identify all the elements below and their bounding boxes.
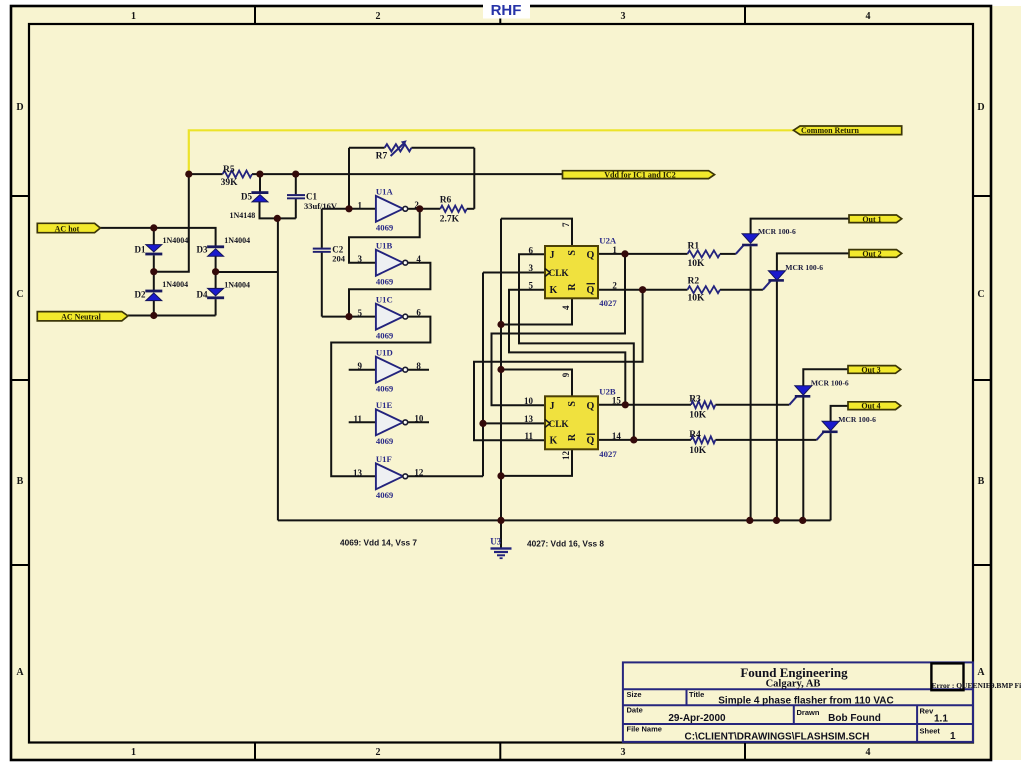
wire R1 to SCR1 gate <box>720 253 736 255</box>
resistor R6 <box>440 206 467 212</box>
wire R3 to SCR3 gate <box>715 404 789 406</box>
svg-text:Simple 4 phase flasher from 11: Simple 4 phase flasher from 110 VAC <box>718 695 893 706</box>
wire SCR4 cathode <box>830 433 832 520</box>
sheet name RHF <box>483 0 530 19</box>
resistor R3 <box>691 401 715 408</box>
inverter U1E <box>353 400 423 446</box>
svg-text:4: 4 <box>561 305 571 310</box>
wire R6 leads <box>467 208 475 210</box>
wire SCR1 cathode <box>750 246 752 520</box>
svg-text:Vdd for IC1 and IC2: Vdd for IC1 and IC2 <box>604 170 675 179</box>
svg-text:CLK: CLK <box>549 420 570 430</box>
port label Out 2 <box>849 249 902 258</box>
svg-text:U1B: U1B <box>376 241 393 251</box>
wire U2B J line from U2A Q <box>492 254 626 405</box>
svg-text:10: 10 <box>524 396 534 406</box>
wire U2B Qbar pin14 to R4 <box>598 439 691 441</box>
field captions <box>627 690 941 736</box>
svg-text:1: 1 <box>358 200 363 210</box>
svg-text:K: K <box>550 435 558 446</box>
wire U1E input stub <box>349 421 376 423</box>
thyristor SCR4 MCR 100-6 <box>822 415 876 433</box>
svg-text:1: 1 <box>612 245 617 255</box>
wire U1B out to U1C in <box>349 263 430 317</box>
field values <box>668 695 956 742</box>
svg-text:12: 12 <box>561 451 571 461</box>
diode D1 1N4004 <box>135 236 189 255</box>
wire U1C out to U1F in <box>331 317 430 477</box>
ground U3 <box>490 537 511 560</box>
svg-text:R5: R5 <box>223 165 235 175</box>
wire clock riser <box>482 273 484 477</box>
svg-text:R6: R6 <box>440 195 452 205</box>
svg-text:Q: Q <box>587 435 595 446</box>
svg-text:J: J <box>550 250 555 261</box>
svg-text:Q: Q <box>587 401 595 412</box>
svg-text:1N4004: 1N4004 <box>162 280 188 289</box>
wire set-reset ground chain <box>500 219 502 521</box>
svg-text:R7: R7 <box>376 152 388 162</box>
svg-text:3: 3 <box>621 747 626 758</box>
svg-text:D2: D2 <box>135 289 146 299</box>
thyristor SCR2 MCR 100-6 <box>768 263 823 282</box>
wire U1F output to clock riser <box>408 475 484 477</box>
svg-text:4069: 4069 <box>376 436 394 446</box>
svg-text:4: 4 <box>866 11 871 22</box>
svg-text:1N4004: 1N4004 <box>163 236 189 245</box>
svg-text:1: 1 <box>131 747 136 758</box>
svg-text:4027: 4027 <box>599 298 617 308</box>
svg-text:2: 2 <box>376 11 381 22</box>
inverter U1B <box>358 241 422 287</box>
svg-text:4027: Vdd 16, Vss 8: 4027: Vdd 16, Vss 8 <box>527 539 604 549</box>
wire U2B CLK line <box>483 422 545 424</box>
capacitor C2 <box>313 245 346 264</box>
svg-text:10K: 10K <box>689 446 707 456</box>
svg-text:U1F: U1F <box>376 454 392 464</box>
wire D1 bottom lead <box>153 255 155 271</box>
svg-text:10: 10 <box>414 413 424 423</box>
diode D2 1N4004 <box>135 280 189 301</box>
svg-text:D3: D3 <box>197 245 208 255</box>
svg-text:RHF: RHF <box>491 2 522 19</box>
svg-text:Date: Date <box>627 706 643 715</box>
svg-text:204: 204 <box>332 253 346 263</box>
svg-text:J: J <box>550 401 555 412</box>
diode D5 1N4148 <box>230 191 269 220</box>
svg-text:Sheet: Sheet <box>920 727 941 736</box>
wire U2A R pin4 <box>501 298 572 324</box>
wire C1 leads <box>295 174 297 194</box>
svg-text:Bob Found: Bob Found <box>828 713 881 724</box>
wire U2A Q pin1 to R1 <box>598 253 688 255</box>
svg-text:1N4004: 1N4004 <box>224 280 250 289</box>
svg-text:3: 3 <box>621 11 626 22</box>
svg-text:14: 14 <box>612 431 622 441</box>
svg-text:2: 2 <box>612 280 617 290</box>
wire ground stem <box>500 520 502 548</box>
svg-text:C: C <box>977 289 984 300</box>
wire D4 leads <box>215 272 217 289</box>
title block <box>623 662 1021 742</box>
svg-text:A: A <box>977 667 985 678</box>
wire ground bottom rail <box>278 519 831 521</box>
svg-text:1.1: 1.1 <box>934 713 948 724</box>
junction node dots <box>150 171 806 525</box>
svg-text:2: 2 <box>376 747 381 758</box>
inverter U1F <box>353 454 424 500</box>
resistor R2 <box>688 286 721 293</box>
svg-text:Out 4: Out 4 <box>861 402 880 411</box>
svg-text:11: 11 <box>524 431 533 441</box>
svg-text:A: A <box>16 667 24 678</box>
svg-text:5: 5 <box>358 308 363 318</box>
port label Out 1 <box>849 215 902 224</box>
svg-text:R: R <box>567 433 578 441</box>
svg-text:1N4004: 1N4004 <box>224 236 250 245</box>
svg-text:R: R <box>567 283 578 291</box>
wire ground riser <box>277 218 279 520</box>
wire U1A output <box>408 208 420 210</box>
svg-text:Out 1: Out 1 <box>862 215 881 224</box>
wire SCR4 anode to Out4 <box>831 406 848 421</box>
svg-text:U1A: U1A <box>376 187 394 197</box>
wire D5 leads and bottom link <box>259 174 261 192</box>
svg-text:12: 12 <box>414 467 424 477</box>
svg-text:U3: U3 <box>490 537 501 547</box>
port label Vdd for IC1 and IC2 <box>563 170 715 179</box>
resistor R1 <box>688 250 721 257</box>
svg-text:MCR 100-6: MCR 100-6 <box>838 415 876 424</box>
svg-text:9: 9 <box>358 361 363 371</box>
svg-text:13: 13 <box>353 468 363 478</box>
wire U2A S pin7 <box>501 219 572 246</box>
inverter U1D <box>358 348 422 394</box>
svg-text:13: 13 <box>524 414 534 424</box>
wire D3 bottom lead <box>215 256 217 272</box>
wire R4 to SCR4 gate <box>715 439 816 441</box>
svg-text:D4: D4 <box>197 289 208 299</box>
wire U2B Q pin15 to R3 <box>598 404 691 406</box>
wire D2 leads <box>153 272 155 291</box>
inverter U1C <box>358 295 422 341</box>
port label Out 3 <box>848 365 901 374</box>
svg-text:AC hot: AC hot <box>55 224 80 233</box>
svg-text:C:\CLIENT\DRAWINGS\FLASHSIM.SC: C:\CLIENT\DRAWINGS\FLASHSIM.SCH <box>685 731 870 742</box>
wire D1 top lead <box>153 228 155 246</box>
wire bridge plus to R5 riser <box>154 174 189 272</box>
svg-text:File Name: File Name <box>627 725 662 734</box>
svg-text:39K: 39K <box>221 178 239 188</box>
svg-text:Drawn: Drawn <box>797 708 820 717</box>
svg-text:8: 8 <box>416 361 421 371</box>
svg-text:Size: Size <box>627 690 642 699</box>
svg-text:10K: 10K <box>688 294 706 304</box>
wire U2B K line from U2A Qbar <box>474 290 643 441</box>
thyristor SCR1 MCR 100-6 <box>742 227 796 246</box>
svg-text:R4: R4 <box>689 430 701 440</box>
svg-text:S: S <box>567 250 578 256</box>
wire U1D output stub <box>408 369 430 371</box>
potentiometer R7 <box>376 140 412 161</box>
svg-text:AC Neutral: AC Neutral <box>61 312 102 321</box>
svg-text:1: 1 <box>950 731 956 742</box>
port label Common Return <box>794 126 902 135</box>
svg-text:4027: 4027 <box>599 449 617 459</box>
svg-text:Q: Q <box>587 285 595 296</box>
resistor R5 <box>223 171 252 178</box>
port label AC hot <box>37 223 100 233</box>
svg-text:11: 11 <box>353 414 362 424</box>
error box <box>931 663 963 690</box>
wire U2A K line from U2B Q <box>509 290 625 405</box>
wire U1C input line <box>322 316 376 318</box>
wire common-return yellow <box>189 130 794 174</box>
svg-text:1N4148: 1N4148 <box>230 211 256 220</box>
flip-flop U2A <box>529 222 618 310</box>
svg-text:Q: Q <box>587 250 595 261</box>
svg-text:Error : QUEENIE9.BMP File: Error : QUEENIE9.BMP File <box>932 681 1021 690</box>
svg-text:4: 4 <box>416 254 421 264</box>
svg-text:4069: 4069 <box>376 223 394 233</box>
svg-text:R1: R1 <box>688 242 700 252</box>
svg-text:D5: D5 <box>241 192 252 202</box>
svg-text:B: B <box>17 476 24 487</box>
wire U2A J line from U2B Qbar <box>519 254 634 440</box>
inverter U1A <box>358 187 420 233</box>
svg-text:Out 3: Out 3 <box>861 365 880 374</box>
svg-text:U1C: U1C <box>376 295 393 305</box>
svg-text:33uf/16V: 33uf/16V <box>304 201 338 211</box>
wire bridge minus to ground riser <box>216 271 278 273</box>
svg-text:4069: 4069 <box>376 384 394 394</box>
wire SCR2 cathode <box>776 281 778 520</box>
svg-text:4069: Vdd 14, Vss 7: 4069: Vdd 14, Vss 7 <box>340 538 417 548</box>
svg-text:R3: R3 <box>689 394 701 404</box>
resistor R4 <box>691 436 715 443</box>
svg-text:C: C <box>16 289 23 300</box>
svg-text:6: 6 <box>529 246 534 256</box>
port label Out 4 <box>848 402 901 411</box>
svg-text:10K: 10K <box>688 259 706 269</box>
svg-text:Out 2: Out 2 <box>862 249 881 258</box>
capacitor C1 <box>287 192 338 211</box>
svg-text:D: D <box>977 102 984 113</box>
svg-text:6: 6 <box>416 308 421 318</box>
svg-text:MCR 100-6: MCR 100-6 <box>785 263 823 272</box>
wire U2A CLK line <box>483 272 545 274</box>
wire SCR3 cathode <box>802 397 804 520</box>
wire U1A out to U1B in <box>349 209 420 263</box>
svg-text:2.7K: 2.7K <box>440 214 460 224</box>
wire AC hot line <box>100 228 216 246</box>
svg-text:15: 15 <box>612 395 622 405</box>
wire C2 bottom lead <box>321 252 323 317</box>
svg-text:4: 4 <box>866 747 871 758</box>
svg-text:S: S <box>567 401 578 407</box>
svg-text:29-Apr-2000: 29-Apr-2000 <box>668 713 726 724</box>
svg-text:R2: R2 <box>688 277 700 287</box>
svg-text:9: 9 <box>561 372 571 377</box>
svg-text:B: B <box>978 476 985 487</box>
svg-text:Title: Title <box>689 690 704 699</box>
svg-text:7: 7 <box>561 222 571 227</box>
wire C2 top lead <box>321 209 323 248</box>
wire SCR2 anode to Out2 <box>777 253 849 270</box>
wire Vdd main line <box>189 173 223 175</box>
svg-text:3: 3 <box>529 263 534 273</box>
svg-text:D: D <box>16 102 23 113</box>
svg-text:Calgary, AB: Calgary, AB <box>766 679 821 690</box>
wire AC neutral line <box>128 315 216 317</box>
svg-text:K: K <box>550 285 558 296</box>
svg-text:Common Return: Common Return <box>801 126 860 135</box>
port label AC Neutral <box>37 312 128 322</box>
svg-text:Rev: Rev <box>920 707 935 716</box>
title block outline <box>623 662 973 742</box>
svg-text:3: 3 <box>358 254 363 264</box>
svg-text:U1E: U1E <box>376 400 393 410</box>
diode D4 1N4004 <box>197 280 250 299</box>
wire U2B S pin9 <box>501 370 572 397</box>
flip-flop U2B <box>524 372 621 460</box>
wire R7 feedback branch <box>348 148 350 209</box>
svg-text:D1: D1 <box>135 245 146 255</box>
wire U1E output stub <box>408 421 430 423</box>
thyristor SCR3 MCR 100-6 <box>795 379 849 398</box>
wire U2A Qbar pin2 to R2 <box>598 289 688 291</box>
svg-text:1: 1 <box>131 11 136 22</box>
wire U1D input stub <box>349 369 376 371</box>
svg-text:CLK: CLK <box>549 269 570 279</box>
wire SCR1 anode to Out1 <box>751 219 849 234</box>
svg-text:MCR 100-6: MCR 100-6 <box>811 379 849 388</box>
wire U2B R pin12 <box>501 449 572 476</box>
svg-text:10K: 10K <box>689 411 707 421</box>
wire R2 to SCR2 gate <box>720 289 763 291</box>
svg-text:4069: 4069 <box>376 331 394 341</box>
wire SCR3 anode to Out3 <box>803 369 848 385</box>
svg-text:U1D: U1D <box>376 348 393 358</box>
wire U1A input line <box>322 208 376 210</box>
svg-text:MCR 100-6: MCR 100-6 <box>758 227 796 236</box>
diode D3 1N4004 <box>197 236 251 256</box>
svg-text:4069: 4069 <box>376 490 394 500</box>
svg-text:5: 5 <box>529 281 534 291</box>
svg-text:4069: 4069 <box>376 277 394 287</box>
